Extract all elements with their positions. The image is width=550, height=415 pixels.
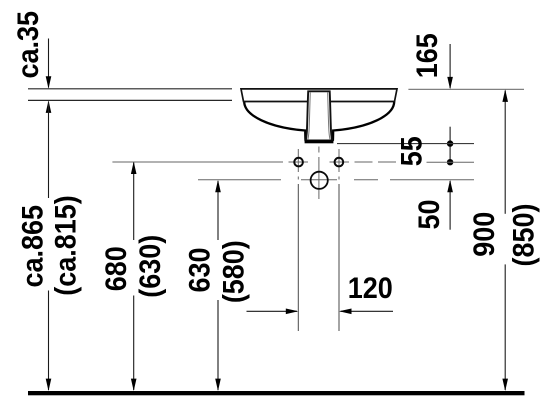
right hole line to floor (338, 184, 340, 331)
arrow down at floor x48 (46, 379, 52, 391)
svg-text:(ca.815): (ca.815) (49, 195, 83, 295)
extension dash through right hole (330, 161, 350, 163)
drain column (306, 91, 333, 140)
dim line 680 upper seg (133, 163, 135, 241)
svg-text:(630): (630) (133, 235, 167, 298)
extension dashes right of holes (355, 161, 398, 163)
dim line ca.865 lower seg (48, 291, 50, 391)
dim line 165 (449, 44, 451, 88)
svg-text:630: 630 (183, 247, 217, 292)
centerline drain vertical (318, 147, 320, 153)
extension dash right of big hole (354, 179, 378, 181)
arrow down at floor x217 (215, 379, 221, 391)
extension line column base level (337, 143, 474, 145)
svg-text:680: 680 (100, 246, 134, 291)
arrow down at floor x503 (502, 379, 508, 391)
extension seg at 50 dim (390, 179, 474, 181)
svg-text:(580): (580) (217, 240, 251, 303)
drain column inner contour right (328, 92, 331, 140)
svg-text:ca.865: ca.865 (16, 205, 50, 288)
arrow up 50 (447, 180, 453, 193)
faucet hole left (294, 158, 303, 167)
counter bottom line left (28, 99, 232, 101)
dim line 630 lower seg (217, 300, 219, 390)
basin rim (241, 89, 397, 102)
dim line ca.35 upper (48, 39, 50, 88)
svg-text:(850): (850) (507, 204, 541, 267)
faucet hole right (335, 158, 344, 167)
svg-text:55: 55 (395, 136, 429, 166)
centerline left hole vertical (297, 149, 299, 172)
extension dash through left hole (289, 161, 309, 163)
drain hole (311, 172, 328, 189)
centerline right hole dot (338, 177, 340, 180)
dim line ca.865 upper seg (48, 102, 50, 199)
arrow up 680 (131, 162, 137, 175)
dim 120 left line (247, 310, 298, 312)
dim line 680 lower seg (133, 296, 135, 391)
centerline left hole dot (297, 177, 299, 180)
arrow down 165 (447, 77, 453, 90)
dim line 50 (449, 181, 451, 230)
extension dash through big hole (301, 179, 337, 181)
centerline right hole vertical (338, 149, 340, 172)
left hole line to floor (297, 184, 299, 331)
extension seg at 55 dim (427, 161, 475, 163)
arrow up 630 (215, 180, 221, 193)
arrow right 120 (286, 309, 299, 315)
drain column inner contour left (308, 92, 311, 140)
basin bowl right arc (333, 102, 394, 141)
svg-text:ca.35: ca.35 (12, 11, 46, 79)
dim line 900 lower seg (504, 264, 506, 390)
arrow left 120 (339, 309, 352, 315)
drain column base band (305, 140, 334, 143)
dim line 900 upper seg (504, 91, 506, 214)
extension line drain level left (198, 179, 281, 181)
counter line right (gray) (408, 88, 524, 90)
svg-text:120: 120 (348, 272, 393, 306)
counter top line left (28, 88, 232, 90)
floor line (28, 391, 525, 395)
svg-text:50: 50 (413, 199, 447, 229)
arrow up 900 (502, 89, 508, 102)
dim 120 right line (341, 310, 394, 312)
svg-text:165: 165 (411, 33, 445, 78)
basin bowl left arc (244, 102, 305, 141)
centerline drain vertical seg2 (318, 157, 320, 199)
dim line 630 upper seg (217, 181, 219, 240)
svg-text:900: 900 (467, 212, 501, 257)
extension line faucet holes level (112, 161, 283, 163)
dim line 55 (449, 127, 451, 163)
arrow up below counter (46, 100, 52, 113)
arrow down at floor x133 (131, 379, 137, 391)
dot 55 bottom (447, 159, 453, 165)
dot 55 top (447, 140, 453, 146)
arrow down at counter top (46, 76, 52, 89)
